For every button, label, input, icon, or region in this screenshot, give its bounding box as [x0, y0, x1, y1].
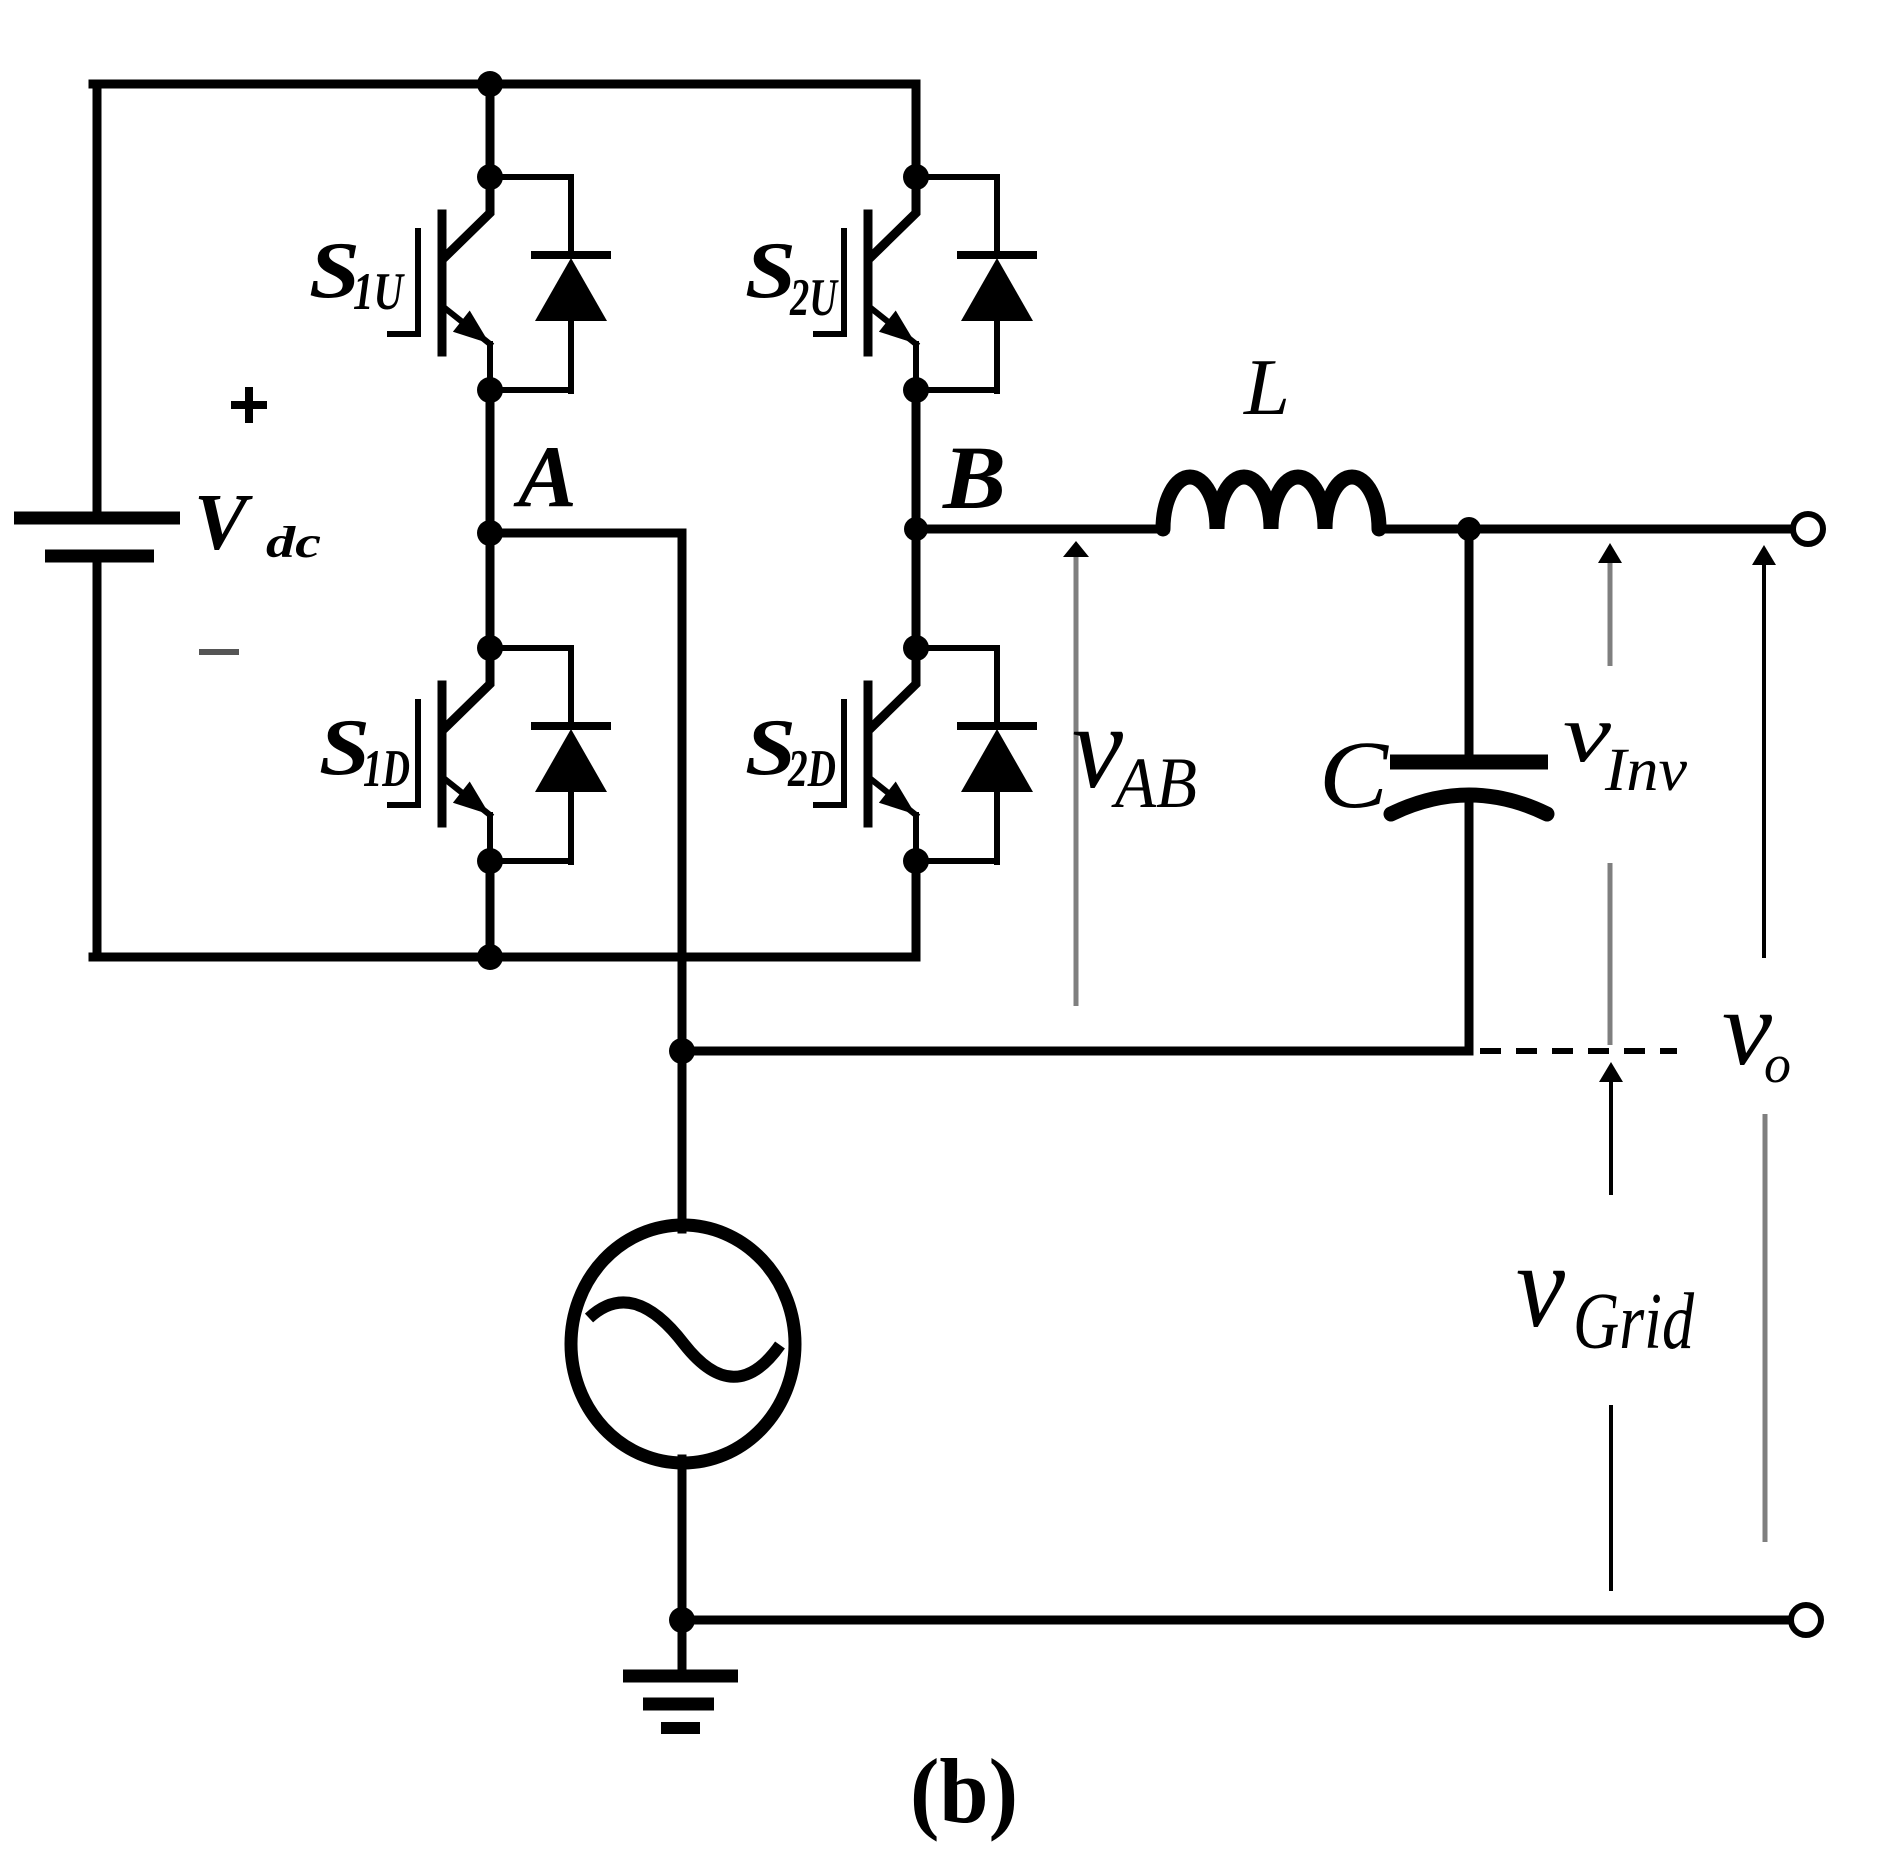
junction bottom output node	[669, 1607, 695, 1633]
svg-text:1U: 1U	[353, 263, 405, 321]
junction S1D collector	[477, 635, 503, 661]
AC source sine wave	[589, 1302, 780, 1376]
inductor L	[1163, 477, 1379, 529]
arrow vGrid lower stem	[1609, 1405, 1613, 1591]
junction AC source top node	[669, 1038, 695, 1064]
transistor S2U	[816, 177, 916, 390]
label A	[513, 429, 577, 526]
junction filter output node	[1457, 517, 1481, 541]
battery Vdc positive plate	[14, 512, 180, 525]
svg-text:o: o	[1764, 1034, 1791, 1094]
svg-text:1D: 1D	[363, 740, 410, 798]
arrow vo lower stem	[1763, 1114, 1768, 1542]
junction S1U emitter	[477, 377, 503, 403]
svg-text:v: v	[1563, 687, 1611, 779]
arrow vAB	[1063, 541, 1089, 1006]
label S1D	[319, 704, 410, 798]
wire capacitor branch upper	[1465, 529, 1474, 755]
node B	[904, 517, 928, 541]
wire bottom output	[682, 1616, 1789, 1625]
label vInv	[1563, 687, 1688, 804]
wire left battery branch lower	[93, 563, 102, 957]
svg-text:2D: 2D	[787, 740, 836, 798]
junction S2D collector	[903, 635, 929, 661]
svg-text:C: C	[1319, 721, 1389, 828]
wire left bridge leg lower	[486, 861, 495, 957]
wire right bridge leg middle	[912, 390, 921, 648]
svg-text:(b): (b)	[910, 1740, 1018, 1842]
battery minus sign	[199, 649, 239, 655]
label S2D	[745, 704, 836, 798]
transistor S1U	[390, 177, 490, 390]
AC source vGrid circle	[571, 1225, 795, 1463]
svg-text:A: A	[513, 429, 577, 526]
wire left bridge leg middle	[486, 390, 495, 648]
svg-text:dc: dc	[266, 518, 321, 567]
label C	[1319, 721, 1389, 828]
label vGrid	[1516, 1219, 1695, 1366]
svg-text:V: V	[194, 479, 253, 567]
svg-text:2U: 2U	[789, 269, 839, 327]
wire node B to inductor	[916, 525, 1165, 534]
wire AC source bottom lead	[678, 1459, 687, 1620]
svg-text:L: L	[1243, 344, 1290, 432]
transistor S1D	[390, 648, 490, 861]
svg-text:AB: AB	[1111, 743, 1197, 823]
svg-text:v: v	[1516, 1219, 1566, 1352]
wire node A to AC source (crosses bottom rail)	[490, 533, 682, 1051]
diode D2D (antiparallel with S2D)	[916, 648, 1033, 862]
label S1U	[309, 227, 405, 321]
arrow vGrid	[1599, 1062, 1623, 1195]
junction S1D emitter	[477, 848, 503, 874]
label S2U	[745, 227, 839, 327]
terminal output bottom	[1791, 1605, 1821, 1635]
label vAB	[1072, 680, 1197, 823]
diode D1U (antiparallel with S1U)	[490, 177, 607, 391]
wire inductor to output terminal	[1378, 525, 1791, 534]
label B	[942, 429, 1006, 528]
wire right bridge leg upper	[912, 84, 921, 177]
wire bottom DC rail	[93, 953, 916, 962]
wire capacitor branch lower	[1465, 796, 1474, 1051]
wire AC source top lead	[678, 1051, 687, 1229]
junction bottom rail / left leg	[477, 944, 503, 970]
svg-text:Inv: Inv	[1604, 737, 1688, 804]
label L	[1243, 344, 1290, 432]
capacitor C curved plate	[1391, 795, 1547, 814]
caption (b)	[910, 1740, 1018, 1842]
node A	[477, 520, 503, 546]
ground	[623, 1628, 738, 1728]
wire mid horizontal (AC node to capacitor bottom)	[682, 1047, 1469, 1056]
diode D2U (antiparallel with S2U)	[916, 177, 1033, 391]
wire top DC rail	[93, 80, 916, 89]
capacitor C top plate	[1390, 755, 1548, 770]
label Vdc	[194, 479, 321, 567]
junction S1U collector	[477, 164, 503, 190]
svg-text:B: B	[942, 429, 1006, 528]
svg-text:Grid: Grid	[1573, 1278, 1695, 1366]
wire left battery branch upper	[93, 84, 102, 512]
dashed line vo reference	[1480, 1048, 1677, 1054]
battery plus sign	[231, 387, 267, 423]
arrow vo	[1752, 545, 1776, 958]
terminal output top	[1793, 514, 1823, 544]
arrow vInv upper	[1598, 543, 1622, 666]
wire right bridge leg lower	[912, 861, 921, 957]
svg-text:S: S	[745, 227, 796, 315]
junction S2U emitter	[903, 377, 929, 403]
battery Vdc negative plate	[45, 550, 154, 563]
label vo	[1722, 970, 1791, 1094]
wire left bridge leg upper	[486, 84, 495, 177]
junction top rail / left leg	[477, 71, 503, 97]
junction S2U collector	[903, 164, 929, 190]
arrow vInv lower stem	[1608, 863, 1613, 1045]
diode D1D (antiparallel with S1D)	[490, 648, 607, 862]
transistor S2D	[816, 648, 916, 861]
junction S2D emitter	[903, 848, 929, 874]
